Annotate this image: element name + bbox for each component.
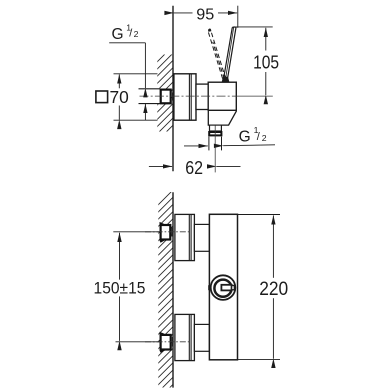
body base with chamfer [208,110,236,125]
square symbol [96,91,108,103]
supply pipe stub in wall [139,88,161,104]
dimension 105 (right) [233,27,273,95]
dashed lever tip cap [208,29,211,32]
horizontal centerline through body [140,95,273,97]
svg-text:2: 2 [262,133,267,143]
svg-text:G: G [112,26,124,43]
dimension 220 (right) [238,215,281,360]
wall flange / escutcheon (top view) [174,74,196,120]
connection stub top [194,224,209,251]
svg-text:2: 2 [134,29,139,39]
connection stub bottom [194,324,209,351]
centerline top union [145,231,191,233]
mixer body (front view) [209,214,237,359]
svg-text:105: 105 [253,53,279,73]
outlet pipe (G1/2 thread) [208,137,210,151]
svg-text:150±15: 150±15 [94,280,146,298]
wall hatching (top view) [150,39,180,148]
dimension 95 (top) [174,6,238,28]
wall line (bottom view) [172,192,174,387]
label G 1/2 (top left) with leader [109,43,145,120]
outlet centerline [214,126,216,173]
escutcheon bottom [175,314,195,360]
dimension 62 (bottom of top view) [149,165,241,167]
union nut bottom (bottom view) [161,335,171,350]
mixer body (top view) [208,82,236,110]
dimension 150±15 (left) [113,232,160,342]
dimension square-70 (left) [114,74,158,120]
lever handle (solid position) [223,27,236,81]
temperature mark tick [208,285,210,290]
union nut at wall (top view) [161,90,171,104]
knob handle [221,285,231,291]
outlet stub [210,125,222,131]
escutcheon top [175,214,195,260]
svg-text:95: 95 [196,7,214,24]
wall line (top view) [172,6,174,172]
wall hatching (bottom view) [150,181,182,388]
union nut top (bottom view) [161,225,171,240]
union body dark corners bottom nut [160,332,165,336]
centerline bottom union [145,341,191,343]
svg-text:G: G [239,129,251,146]
lever handle (dashed alternate position) [208,32,226,79]
knob outer circle [211,275,236,300]
svg-text:70: 70 [109,87,129,107]
knob inner ring [214,280,231,297]
neck between flange and body [196,84,208,109]
svg-text:220: 220 [259,279,288,300]
label G 1/2 (outlet) with dimension arrows [184,145,275,146]
lever base pivot (dark) [222,77,230,82]
svg-text:62: 62 [185,158,203,178]
union body dark corners top nut [160,222,165,226]
outlet nut [209,132,221,135]
